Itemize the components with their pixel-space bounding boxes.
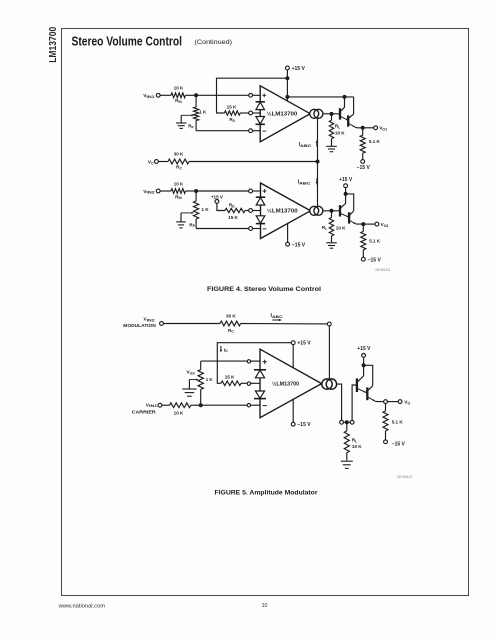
svg-text:30 K: 30 K [226, 313, 236, 318]
svg-text:LM13700: LM13700 [48, 27, 59, 63]
svg-text:RP: RP [188, 124, 194, 130]
V- wire to -15V (ch2) [287, 224, 289, 243]
V+ pin wire (fig5) [292, 344, 294, 368]
wire RIN to node [186, 94, 197, 96]
svg-text:−15 V: −15 V [297, 422, 311, 428]
IABC feed wire to ch1 [317, 118, 319, 161]
ground below RL (fig5) [341, 460, 353, 462]
resistor 10K carrier (fig5) [170, 403, 191, 408]
svg-text:VIN2: VIN2 [144, 317, 155, 323]
V+ pin junction node (ch1) [285, 95, 289, 99]
svg-text:RL: RL [322, 225, 327, 231]
svg-text:(Continued): (Continued) [195, 39, 233, 46]
svg-text:www.national.com: www.national.com [59, 603, 105, 609]
op-amp U2 1/2 LM13700 (ch2) [261, 183, 311, 239]
wire RC to IABC pin terminal (fig5) [241, 323, 328, 325]
input terminal circles of op-amp U2 [249, 189, 253, 193]
svg-text:15 K: 15 K [225, 374, 235, 379]
svg-text:10 K: 10 K [174, 85, 184, 90]
resistor RD 15K (ch2) [225, 208, 245, 212]
svg-text:15 K: 15 K [228, 215, 238, 220]
input terminal circles of op-amp U3 [247, 360, 250, 363]
output mirror symbol (ch1) [310, 109, 319, 118]
minus sign at - input (fig5) [263, 405, 267, 407]
pull-down resistor 5.1K (fig5) [385, 404, 387, 411]
svg-text:15 K: 15 K [227, 105, 237, 110]
buffer transistor Q6 (fig5) [366, 387, 368, 400]
-15V terminal below 5.1K (fig5) [384, 440, 388, 444]
wire OTA output down to buffer pins (fig5) [337, 384, 342, 420]
svg-text:10: 10 [262, 603, 268, 609]
IABC pin terminal (fig5) [327, 322, 331, 326]
node collector rail (ch2) [344, 192, 348, 196]
svg-text:Stereo Volume Control: Stereo Volume Control [72, 33, 183, 48]
svg-text:10 K: 10 K [336, 225, 346, 230]
buffer transistor Q1 (ch1) [339, 108, 341, 119]
node at RIN / RP junction (ch2) [194, 189, 198, 193]
node at RIN / RP junction (ch1) [194, 93, 198, 97]
ground at VOS wiper (fig5) [188, 380, 190, 390]
wire node to - input (fig5) [201, 404, 247, 406]
svg-text:5.1 K: 5.1 K [369, 139, 381, 144]
linearizing diode D4 (ch2) [256, 216, 265, 223]
load resistor RL 10K (ch1) [331, 114, 333, 120]
svg-text:00766112: 00766112 [397, 475, 412, 479]
load resistor RL 10K (fig5) [346, 422, 348, 431]
svg-text:ID: ID [224, 347, 228, 353]
input terminal circles of op-amp U1 [249, 93, 253, 97]
svg-text:+15 V: +15 V [292, 66, 306, 72]
svg-text:−15 V: −15 V [357, 165, 371, 171]
svg-text:RL: RL [335, 124, 340, 130]
resistor RC 30K (fig4) [168, 159, 189, 164]
svg-text:1 K: 1 K [199, 110, 207, 115]
buffer transistor Q3 (ch2) [339, 205, 341, 216]
wire VIN1 to RIN [160, 94, 171, 96]
pull-down resistor 5.1K (ch2) [362, 224, 364, 231]
svg-text:10 K: 10 K [174, 181, 184, 186]
svg-text:−15 V: −15 V [392, 441, 406, 447]
svg-text:−15 V: −15 V [368, 257, 382, 263]
svg-text:10 K: 10 K [174, 411, 184, 416]
minus sign at - input (ch2) [263, 228, 267, 230]
svg-text:RD: RD [229, 203, 235, 209]
-15V terminal below 5.1K (ch2) [361, 257, 365, 261]
resistor RC 30K (fig5) [220, 321, 241, 326]
output terminal VO (fig5) [398, 400, 402, 404]
ground at RP wiper (ch1) [180, 115, 182, 122]
wire V+ node to buffer collector rail (ch1) [287, 96, 353, 98]
wire +15V down to V+ pin (ch1) [286, 70, 288, 101]
potentiometer RP 1K (ch2) [195, 191, 197, 201]
ground at RP wiper (ch2) [180, 213, 182, 222]
node RL / base (ch2) [330, 209, 334, 213]
svg-text:30 K: 30 K [174, 152, 184, 157]
potentiometer RP 1K (ch1) [195, 95, 197, 107]
pull-down resistor 5.1K (ch1) [362, 128, 364, 135]
linearizing diode D6 (fig5) [255, 391, 264, 398]
svg-text:MODULATION: MODULATION [123, 323, 156, 328]
linearizing diode D1 (ch1) [256, 101, 265, 103]
V- wire to -15V (fig5) [292, 400, 294, 423]
IABC junction node [316, 160, 320, 164]
plus sign at + input (ch1) [262, 93, 266, 97]
minus sign at - input (ch1) [262, 130, 266, 132]
svg-text:FIGURE 5. Amplitude Modulator: FIGURE 5. Amplitude Modulator [215, 489, 319, 496]
resistor 15K diode bias (fig5) [221, 381, 241, 386]
svg-text:+15 V: +15 V [297, 341, 311, 347]
load resistor RL 10K (ch2) [331, 211, 333, 218]
buffer transistor Q2 (ch1) [347, 115, 349, 126]
linearizing diode D3 (ch2) [256, 196, 265, 198]
plus sign at + input (fig5) [263, 360, 267, 364]
op-amp U3 1/2 LM13700 (fig5) [260, 349, 322, 418]
svg-text:IABC: IABC [299, 142, 312, 148]
svg-text:½LM13700: ½LM13700 [267, 111, 298, 118]
resistor RIN 10K (ch1) [171, 93, 186, 98]
page border frame [62, 29, 469, 596]
output mirror symbol (fig5) [322, 379, 332, 389]
svg-text:½LM13700: ½LM13700 [267, 208, 298, 215]
node on +15V wire to RD loop (ch1) [285, 76, 289, 80]
node between pins (fig5) [345, 420, 349, 424]
linearizing diode D5 (fig5) [254, 369, 266, 371]
svg-text:FIGURE 4. Stereo Volume Contro: FIGURE 4. Stereo Volume Control [207, 286, 321, 293]
wire OTA output to buffer base (ch1) [323, 113, 340, 115]
-15V terminal below 5.1K (ch1) [361, 160, 365, 164]
resistor RD 15K (ch1) [224, 111, 240, 115]
linearizing diode D2 (ch1) [256, 117, 265, 124]
wire node to + input (ch2) [196, 190, 249, 192]
wire node to + input (ch1) [196, 94, 249, 96]
wire +15V loop to RD (ch1) [217, 78, 288, 113]
IABC feed wire to ch2 [317, 162, 319, 207]
wire emitter to output pin (fig5) [375, 400, 384, 402]
node RL / base (ch1) [330, 112, 334, 116]
node carrier / pot bottom (fig5) [199, 403, 203, 407]
svg-text:+15 V: +15 V [339, 177, 353, 183]
svg-text:00766111: 00766111 [375, 268, 390, 272]
wire RP bottom to - input (ch1) [196, 130, 249, 132]
IABC feed wire down (fig5) [328, 326, 330, 380]
svg-text:RC: RC [228, 328, 234, 334]
svg-text:RIN: RIN [175, 98, 182, 104]
+15V terminal (fig5) [291, 341, 295, 345]
output pin terminal (fig5) [340, 420, 344, 424]
svg-text:5.1 K: 5.1 K [369, 239, 381, 244]
output node VO2 [361, 222, 365, 226]
svg-text:RIN: RIN [175, 194, 182, 200]
buffer transistor Q4 (ch2) [348, 212, 350, 223]
wire RC to IABC node [189, 161, 318, 163]
svg-text:RC: RC [176, 165, 182, 171]
ground below RL (ch1) [326, 145, 337, 147]
wire OTA output to buffer base (ch2) [323, 210, 340, 212]
wire buffer pin up to base (fig5) [352, 385, 357, 420]
svg-text:IABC: IABC [298, 179, 311, 185]
svg-text:10 K: 10 K [335, 131, 345, 136]
wire emitter to output node (ch1) [355, 126, 363, 129]
svg-text:+15 V: +15 V [211, 195, 224, 200]
op-amp U1 1/2 LM13700 (ch1) [260, 86, 310, 142]
output mirror symbol (ch2) [310, 206, 319, 215]
resistor RIN 10K (ch2) [171, 189, 186, 194]
svg-text:1 K: 1 K [206, 377, 214, 382]
svg-text:RD: RD [229, 117, 235, 123]
svg-text:CARRIER: CARRIER [132, 410, 156, 415]
svg-text:+15 V: +15 V [357, 346, 371, 352]
svg-text:−15 V: −15 V [292, 242, 306, 248]
buffer transistor Q5 (fig5) [356, 378, 358, 392]
svg-text:5.1 K: 5.1 K [392, 419, 404, 424]
svg-text:RP: RP [189, 222, 195, 228]
wire RP bottom to - input (ch2) [196, 228, 249, 230]
ID down arrow label (fig5) [220, 346, 222, 350]
+15V rail wire to diode bias (fig5) [217, 343, 291, 384]
plus sign at + input (ch2) [263, 189, 267, 193]
node collector rail (fig5) [362, 363, 366, 367]
wire pot top to + input (fig5) [201, 360, 247, 362]
buffer input pin terminal (fig5) [350, 420, 354, 424]
ground below RL (ch2) [326, 242, 337, 244]
output node VO1 [361, 126, 365, 130]
node at Q1 collector (ch1) [343, 95, 347, 99]
output pin terminal VO side (fig5) [384, 400, 388, 404]
svg-text:1 K: 1 K [201, 207, 209, 212]
svg-text:½LM13700: ½LM13700 [272, 380, 299, 387]
wire emitter to output node (ch2) [356, 223, 364, 225]
svg-text:RL: RL [352, 438, 357, 444]
+15V supply terminal (ch1) [286, 66, 290, 70]
svg-text:10 K: 10 K [352, 444, 362, 449]
